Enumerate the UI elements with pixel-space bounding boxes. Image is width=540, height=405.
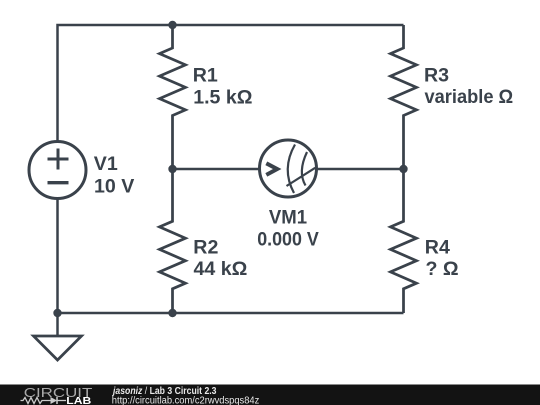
label R1 value 1.5 kOhm xyxy=(193,87,252,109)
voltage source V1 xyxy=(29,142,86,199)
label R4 name xyxy=(425,237,450,259)
svg-text:R4: R4 xyxy=(425,237,450,259)
CircuitLab logo resistor-diode glyph xyxy=(21,397,67,404)
svg-text:V1: V1 xyxy=(94,153,118,175)
wire: top rail from node A to R3 branch xyxy=(173,24,404,27)
CircuitLab logo wordmark LAB xyxy=(66,396,91,405)
junction node E (bottom rail / ground) xyxy=(53,309,61,317)
junction node D (bottom rail / R2) xyxy=(168,309,176,317)
svg-text:R1: R1 xyxy=(193,65,218,87)
ground xyxy=(34,313,82,360)
svg-text:R3: R3 xyxy=(424,65,449,87)
label V1 name xyxy=(94,153,118,175)
svg-text:R2: R2 xyxy=(193,237,218,259)
voltmeter VM1 xyxy=(260,140,317,197)
footer title text xyxy=(111,386,217,397)
svg-text:0.000 V: 0.000 V xyxy=(257,229,319,251)
label R2 value 44 kOhm xyxy=(194,258,248,280)
junction node A (top rail / R1) xyxy=(168,21,176,29)
label V1 value 10 V xyxy=(94,175,134,197)
label R2 name xyxy=(193,237,218,259)
svg-text:LAB: LAB xyxy=(66,396,91,405)
resistor R1 xyxy=(160,25,186,169)
svg-text:VM1: VM1 xyxy=(269,206,307,228)
footer bar xyxy=(0,385,540,405)
svg-text:10 V: 10 V xyxy=(94,175,134,197)
svg-text:44 kΩ: 44 kΩ xyxy=(194,258,248,280)
resistor R3 xyxy=(391,25,417,169)
resistor R4 xyxy=(391,169,417,313)
wire: middle rail from voltmeter right terminal to node C xyxy=(317,168,404,171)
footer url text xyxy=(112,396,260,405)
label R4 value ? Ohm xyxy=(426,258,459,280)
label R3 value variable Ohm xyxy=(425,86,514,108)
wire: bottom rail xyxy=(58,312,404,315)
svg-text:variable Ω: variable Ω xyxy=(425,86,514,108)
svg-text:http://circuitlab.com/c2rwvdsp: http://circuitlab.com/c2rwvdspqs84z xyxy=(112,396,260,405)
label R1 name xyxy=(193,65,218,87)
label R3 name xyxy=(424,65,449,87)
svg-text:1.5 kΩ: 1.5 kΩ xyxy=(193,87,252,109)
wire: V1 bottom lead xyxy=(56,199,59,314)
CircuitLab logo wordmark CIRCUIT xyxy=(24,385,93,400)
label VM1 reading 0.000 V xyxy=(257,229,319,251)
resistor R2 xyxy=(160,169,186,313)
label VM1 name xyxy=(269,206,307,228)
wire: middle rail from node B to voltmeter left terminal xyxy=(173,168,260,171)
junction node C (middle rail / R3 R4) xyxy=(399,165,407,173)
wire: top rail from top-left corner to node A xyxy=(58,25,173,142)
svg-text:? Ω: ? Ω xyxy=(426,258,459,280)
junction node B (middle rail / R1 R2) xyxy=(168,165,176,173)
